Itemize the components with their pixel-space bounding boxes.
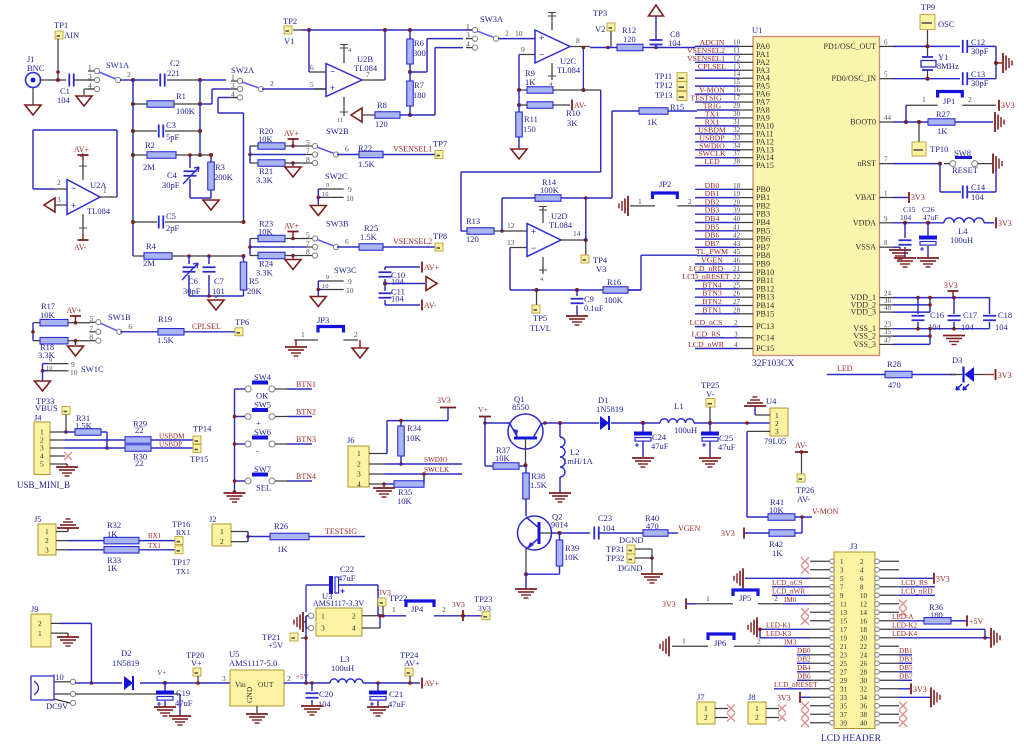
- ground J6 pin4: [382, 482, 386, 486]
- svg-text:2: 2: [45, 536, 49, 545]
- svg-text:RX1: RX1: [176, 528, 190, 537]
- U1 pin 45 PB8 TL_PWM: [739, 255, 753, 257]
- svg-text:2: 2: [354, 330, 358, 339]
- svg-text:R13: R13: [466, 216, 480, 226]
- svg-text:3V3: 3V3: [437, 396, 451, 405]
- svg-text:TP9: TP9: [921, 2, 935, 12]
- net label LED-A: [899, 620, 924, 622]
- svg-text:1K: 1K: [107, 529, 118, 539]
- J3 pin 34: [875, 696, 899, 698]
- svg-text:1: 1: [706, 594, 710, 603]
- svg-text:LCD_nCS: LCD_nCS: [772, 579, 802, 587]
- svg-text:8: 8: [884, 239, 888, 247]
- wire R17 R18 left join: [32, 323, 34, 341]
- net label DB7: [899, 679, 912, 681]
- wire JP4 right to TP23: [434, 615, 482, 617]
- svg-text:J2: J2: [209, 514, 217, 524]
- wire C8 to ADCIN pin: [656, 47, 695, 49]
- svg-text:31: 31: [733, 118, 741, 126]
- svg-text:39: 39: [733, 207, 741, 215]
- svg-text:LCD_RS: LCD_RS: [901, 579, 928, 587]
- test point TP3 V2: [607, 23, 615, 31]
- capacitor C22 47uF polarized: [305, 585, 307, 612]
- svg-text:USBDP: USBDP: [159, 441, 182, 449]
- U1 pin 19 PB1 DB1: [739, 197, 753, 199]
- ground C25: [699, 457, 721, 459]
- svg-text:TP7: TP7: [433, 139, 447, 149]
- svg-text:100uH: 100uH: [674, 425, 697, 435]
- svg-text:TP10: TP10: [930, 144, 948, 154]
- svg-text:SW2A: SW2A: [231, 65, 255, 75]
- svg-text:4: 4: [860, 566, 864, 574]
- net label LCD_nWR: [772, 594, 810, 596]
- ground VSS: [943, 335, 965, 337]
- J3 pin 10: [875, 594, 899, 596]
- svg-text:37: 37: [733, 150, 741, 158]
- svg-text:17: 17: [733, 94, 741, 102]
- svg-text:RESET: RESET: [952, 165, 979, 175]
- svg-text:12: 12: [507, 221, 515, 230]
- capacitor C10 104: [384, 267, 386, 270]
- svg-text:J7: J7: [697, 692, 705, 702]
- svg-text:TX1: TX1: [176, 567, 190, 576]
- wire BOOT0 net: [893, 121, 928, 123]
- test point TP26 AV-: [797, 474, 805, 482]
- svg-text:TP1: TP1: [54, 20, 68, 30]
- U2C output pin8: [570, 46, 590, 48]
- svg-text:SW4: SW4: [254, 372, 272, 382]
- svg-text:VDD_3: VDD_3: [851, 308, 876, 317]
- svg-text:R4: R4: [146, 241, 157, 251]
- svg-text:10: 10: [346, 194, 354, 203]
- svg-text:100uH: 100uH: [331, 663, 354, 673]
- resistor R26 1K: [270, 533, 309, 540]
- test point TP12: [677, 82, 687, 91]
- jumper JP5: [733, 590, 758, 596]
- svg-text:3V3: 3V3: [777, 693, 791, 702]
- svg-text:7: 7: [840, 583, 844, 591]
- U2B pin6 wire: [308, 30, 310, 72]
- net label IM0: [783, 603, 810, 605]
- svg-text:32F103CX: 32F103CX: [752, 359, 794, 369]
- ground SW8: [992, 154, 994, 174]
- resistor R15 1K: [639, 108, 668, 115]
- svg-text:LCD_nWR: LCD_nWR: [688, 340, 725, 349]
- resistor R36 180: [924, 618, 951, 625]
- svg-text:14: 14: [860, 609, 868, 617]
- connector J4 USB_MINI_B: [34, 422, 50, 475]
- svg-text:47uF: 47uF: [718, 442, 736, 452]
- svg-text:120: 120: [623, 34, 636, 44]
- svg-text:17: 17: [840, 626, 848, 634]
- wire J2 join: [247, 532, 249, 542]
- svg-text:3V3: 3V3: [998, 371, 1012, 380]
- svg-text:18: 18: [733, 182, 741, 190]
- U1 pin 17 PA7 TESTSIG: [739, 101, 753, 103]
- resistor R42 1K: [769, 530, 795, 537]
- test point TP7: [435, 151, 443, 159]
- wire V1 net: [302, 29, 465, 31]
- svg-text:2: 2: [704, 713, 708, 722]
- ground C21: [367, 706, 389, 708]
- J3 pin 21: [810, 645, 834, 647]
- svg-text:9: 9: [840, 592, 844, 600]
- wire J10 pin to ground: [76, 693, 181, 695]
- power 3V3 D3: [995, 369, 997, 380]
- svg-text:12: 12: [860, 600, 868, 608]
- svg-text:CPLSEL: CPLSEL: [698, 62, 726, 71]
- wire SW3A pin1 to V1: [465, 29, 472, 31]
- U1 pin 3 PC14 LCD_RS: [739, 337, 753, 339]
- net label LCD_nCS: [772, 586, 810, 588]
- capacitor C16 104: [917, 298, 919, 314]
- U1 pin 41 PB5 DB5: [739, 230, 753, 232]
- ground JP6 left: [668, 636, 670, 656]
- svg-text:2: 2: [287, 674, 291, 683]
- J3 pin 39: [810, 722, 834, 724]
- svg-text:10: 10: [70, 368, 78, 377]
- power 3V3 JP5: [685, 598, 687, 609]
- wire J3 pin5 ground: [745, 577, 810, 579]
- svg-text:13: 13: [507, 238, 515, 247]
- capacitor C8 104: [654, 46, 658, 50]
- J3 pin 33: [810, 696, 834, 698]
- svg-text:221: 221: [167, 68, 180, 78]
- connector J1 BNC: [26, 73, 41, 88]
- svg-text:3V3: 3V3: [913, 685, 927, 694]
- diode D2 1N5819: [124, 676, 133, 690]
- svg-text:V-: V-: [706, 389, 714, 399]
- power VBAT 3V3: [893, 197, 908, 199]
- J3 pin 40: [875, 722, 899, 724]
- wire button bus: [235, 388, 246, 390]
- U2B output pin7: [362, 79, 385, 81]
- test point TP4 V3: [585, 240, 587, 255]
- ground R27: [994, 112, 996, 132]
- svg-text:R3: R3: [215, 162, 225, 172]
- svg-text:44: 44: [884, 114, 892, 122]
- svg-text:DB7: DB7: [899, 672, 913, 680]
- capacitor C17 104: [953, 298, 955, 314]
- svg-text:TP23: TP23: [474, 594, 492, 604]
- push button SW5 +: [245, 414, 251, 420]
- switch SW3B: [312, 236, 317, 241]
- J3 pin 8: [875, 586, 899, 588]
- J3 pin 26: [875, 662, 899, 664]
- svg-text:3: 3: [357, 470, 361, 479]
- ground C19: [154, 706, 176, 708]
- resistor R24: [250, 255, 258, 257]
- svg-text:30: 30: [860, 677, 868, 685]
- wire TLVL net: [510, 289, 641, 291]
- svg-text:3K: 3K: [567, 118, 578, 128]
- ground LED-K2 K4: [984, 629, 986, 638]
- svg-text:C18: C18: [998, 310, 1012, 320]
- U1 pin 6 PD1/OSC_OUT: [880, 45, 894, 47]
- svg-text:C23: C23: [598, 513, 612, 523]
- J3 pin 19: [810, 637, 834, 639]
- capacitor C3 5pF: [133, 130, 157, 132]
- svg-text:1.5K: 1.5K: [157, 335, 175, 345]
- svg-text:1N5819: 1N5819: [596, 404, 623, 414]
- wire C2 to SW2A pin1: [200, 79, 226, 81]
- svg-text:2: 2: [38, 619, 42, 628]
- svg-text:1.5K: 1.5K: [530, 480, 548, 490]
- svg-text:10K: 10K: [40, 310, 56, 320]
- svg-text:D2: D2: [121, 648, 131, 658]
- svg-text:DB5: DB5: [899, 664, 913, 672]
- push button SW6 -: [245, 441, 251, 447]
- svg-text:10: 10: [322, 191, 329, 198]
- inductor L1 100uH: [660, 419, 694, 423]
- no connect J3 pin15: [801, 617, 809, 625]
- wire SW2B left join: [249, 146, 251, 163]
- connector J5: [38, 524, 56, 555]
- connector J3 LCD HEADER: [834, 552, 875, 729]
- svg-text:PA15: PA15: [756, 161, 774, 170]
- svg-text:104: 104: [318, 699, 332, 709]
- resistor R16 100K: [603, 287, 628, 294]
- svg-text:R34: R34: [407, 423, 422, 433]
- svg-text:25: 25: [733, 281, 741, 289]
- power arrow C8: [649, 5, 664, 16]
- U1 pin 12 PA2 VSENSEL1: [739, 61, 753, 63]
- power AV+ R17: [70, 315, 81, 317]
- svg-text:SW1A: SW1A: [106, 60, 130, 70]
- wire R8 node to SW3A pin4: [410, 114, 435, 116]
- J3 pin 32: [875, 688, 899, 690]
- ground C6 C7 R5: [189, 295, 244, 297]
- svg-text:3V3: 3V3: [1001, 101, 1015, 110]
- svg-text:LCD_nRD: LCD_nRD: [901, 587, 933, 595]
- svg-text:J8: J8: [748, 692, 756, 702]
- svg-text:AV-: AV-: [74, 243, 87, 252]
- svg-text:27: 27: [840, 668, 848, 676]
- svg-text:C16: C16: [930, 310, 944, 320]
- svg-text:LCD_nCS: LCD_nCS: [690, 318, 723, 327]
- svg-text:PC15: PC15: [756, 344, 774, 353]
- J3 pin 13: [810, 611, 834, 613]
- switch SW1A: [94, 68, 99, 73]
- capacitor C12 30pF: [962, 40, 964, 53]
- net label LED row: [827, 374, 885, 376]
- wire D1 to C24 L1: [611, 422, 660, 424]
- net label DB1: [899, 654, 912, 656]
- svg-text:30pF: 30pF: [971, 78, 989, 88]
- resistor R8 120: [362, 114, 375, 116]
- svg-text:20K: 20K: [247, 286, 263, 296]
- switch SW2A: [237, 78, 242, 83]
- svg-text:3: 3: [775, 427, 779, 436]
- svg-text:V2: V2: [595, 24, 605, 34]
- U1 pin 29 PA8 TRIG: [739, 109, 753, 111]
- power AV- C11: [384, 303, 386, 305]
- switch SW1C pins 9 10: [48, 363, 68, 365]
- svg-text:AV+: AV+: [284, 129, 300, 138]
- svg-text:2: 2: [968, 95, 972, 104]
- ground JP3 pin1: [295, 340, 297, 346]
- resistor R7 180: [407, 81, 414, 106]
- svg-text:6: 6: [345, 237, 349, 246]
- capacitor C6 30pF variable: [188, 256, 190, 264]
- svg-text:LED: LED: [837, 364, 853, 373]
- ground C24: [632, 457, 654, 459]
- ground C26: [917, 257, 939, 259]
- resistor R2 2M: [133, 154, 147, 156]
- ground SW3C: [317, 290, 319, 297]
- U1 pin 32 PA11 USBDM: [739, 133, 753, 135]
- svg-text:16: 16: [860, 617, 868, 625]
- U1 pin 20 PB2 DB2: [739, 205, 753, 207]
- svg-text:SW2C: SW2C: [325, 171, 348, 181]
- svg-text:AV-: AV-: [797, 494, 810, 504]
- inductor L4 100uH: [944, 218, 984, 223]
- power AV- R10: [571, 100, 573, 111]
- svg-text:VBUS: VBUS: [35, 403, 58, 413]
- wire R9 node down to R13: [600, 90, 602, 172]
- U2A pin3 input: [55, 204, 67, 206]
- svg-text:104: 104: [961, 322, 975, 332]
- test point TP15: [193, 445, 201, 453]
- svg-text:6: 6: [310, 63, 314, 72]
- switch SW1B: [96, 320, 101, 325]
- svg-text:OUT: OUT: [258, 680, 274, 689]
- U1 pin 30 PA9 TX1: [739, 117, 753, 119]
- resistor R19 1.5K: [158, 329, 184, 336]
- connector J6: [348, 446, 369, 487]
- U1 pin 9 VDDA: [880, 222, 894, 224]
- ground SW1C: [42, 371, 44, 381]
- svg-text:2: 2: [505, 29, 509, 38]
- resistor R37 10K: [485, 465, 493, 467]
- svg-text:SWDIO: SWDIO: [424, 456, 448, 464]
- svg-text:CPLSEL: CPLSEL: [192, 322, 221, 331]
- capacitor C26 47uF polarized: [927, 223, 929, 236]
- svg-text:1: 1: [38, 629, 42, 638]
- svg-text:JP5: JP5: [739, 593, 751, 603]
- J3 pin 1: [810, 560, 834, 562]
- svg-text:13: 13: [733, 62, 741, 70]
- J3 pin 20: [875, 637, 899, 639]
- power AV+ C10: [385, 266, 420, 268]
- svg-text:J3: J3: [850, 541, 858, 551]
- U1 pin 27 PB14 BTN2: [739, 305, 753, 307]
- svg-text:10: 10: [346, 286, 354, 295]
- svg-text:BTN1: BTN1: [296, 380, 316, 389]
- svg-text:VBAT: VBAT: [855, 193, 876, 202]
- svg-text:3: 3: [45, 545, 49, 554]
- svg-text:23: 23: [840, 651, 848, 659]
- power +5V R36: [966, 615, 968, 626]
- test point TP14: [193, 436, 201, 444]
- svg-text:45: 45: [733, 248, 741, 256]
- U2B pin5 wire from SW2A: [314, 88, 326, 90]
- svg-text:1K: 1K: [107, 563, 118, 573]
- svg-text:1: 1: [45, 527, 49, 536]
- power AV+ rail end: [421, 678, 423, 689]
- test point TP2 V1: [284, 26, 292, 34]
- svg-text:100K: 100K: [176, 106, 196, 116]
- svg-text:TX1: TX1: [148, 542, 161, 550]
- op-amp U2D TL084: [527, 224, 561, 257]
- U1 pin 25 PB12 BTN4: [739, 288, 753, 290]
- svg-text:8MHz: 8MHz: [937, 61, 959, 71]
- wire U3 output: [362, 615, 380, 617]
- svg-text:IM3: IM3: [784, 638, 797, 646]
- U1 pin 43 PB7 DB7: [739, 246, 753, 248]
- svg-text:PD0/OSC_IN: PD0/OSC_IN: [832, 74, 877, 83]
- wire Q1 rail: [485, 422, 510, 424]
- svg-text:120: 120: [375, 119, 388, 129]
- svg-text:100K: 100K: [604, 295, 624, 305]
- svg-text:9: 9: [884, 215, 888, 223]
- J3 pin 6: [875, 577, 899, 579]
- svg-text:32: 32: [733, 126, 741, 134]
- svg-text:18: 18: [860, 626, 868, 634]
- svg-text:+: +: [330, 83, 335, 93]
- svg-text:47uF: 47uF: [338, 573, 356, 583]
- wire R16 to TL_PWM pin: [640, 255, 642, 290]
- svg-text:22: 22: [860, 643, 868, 651]
- svg-text:SW6: SW6: [254, 427, 271, 437]
- no connect J3 pin3: [801, 566, 809, 574]
- power arrow mid: [385, 283, 425, 285]
- svg-text:31: 31: [840, 685, 848, 693]
- svg-text:AV-: AV-: [795, 441, 808, 450]
- op-amp U2B TL084: [326, 64, 362, 97]
- svg-text:4: 4: [352, 624, 356, 633]
- test point TP9 OSC: [920, 15, 935, 30]
- resistor R18 3.3K: [33, 340, 40, 342]
- svg-text:1: 1: [103, 186, 107, 195]
- U1 pin 18 PB0 DB0: [739, 188, 753, 190]
- svg-text:1: 1: [321, 611, 325, 620]
- svg-text:1.5K: 1.5K: [358, 159, 376, 169]
- J3 pin 14: [875, 611, 899, 613]
- wire J10 to D2: [75, 682, 77, 683]
- svg-text:R26: R26: [274, 521, 288, 531]
- net label DB3: [899, 662, 912, 664]
- svg-text:9: 9: [49, 357, 52, 364]
- svg-text:2: 2: [688, 197, 692, 206]
- ground R11: [511, 149, 527, 159]
- connector J9: [31, 614, 51, 647]
- svg-text:48: 48: [884, 304, 892, 312]
- svg-text:V+: V+: [191, 658, 202, 668]
- wire SWCLK row: [385, 473, 462, 475]
- power 3V3 tap JP4: [462, 610, 464, 621]
- resistor R1 100K: [133, 103, 147, 105]
- svg-text:BTN2: BTN2: [296, 408, 316, 417]
- svg-text:R2: R2: [145, 140, 155, 150]
- svg-text:LCD_RS: LCD_RS: [691, 329, 720, 338]
- U1 pin 1 VBAT: [880, 197, 894, 199]
- capacitor C4 30pF variable: [189, 155, 191, 168]
- svg-text:+5V: +5V: [969, 617, 984, 626]
- wire TP1 stem: [57, 39, 59, 80]
- svg-text:SW1C: SW1C: [81, 364, 104, 374]
- svg-text:12: 12: [733, 54, 741, 62]
- svg-text:V+: V+: [157, 668, 167, 677]
- wire USBDP row: [65, 447, 125, 449]
- svg-text:VSSA: VSSA: [856, 243, 877, 252]
- svg-text:20: 20: [733, 198, 741, 206]
- svg-text:1N5819: 1N5819: [112, 658, 139, 668]
- svg-text:SEL: SEL: [256, 483, 271, 493]
- svg-text:3: 3: [734, 330, 738, 338]
- svg-text:5: 5: [884, 71, 888, 79]
- IC U1 32F103CX body: [753, 37, 880, 356]
